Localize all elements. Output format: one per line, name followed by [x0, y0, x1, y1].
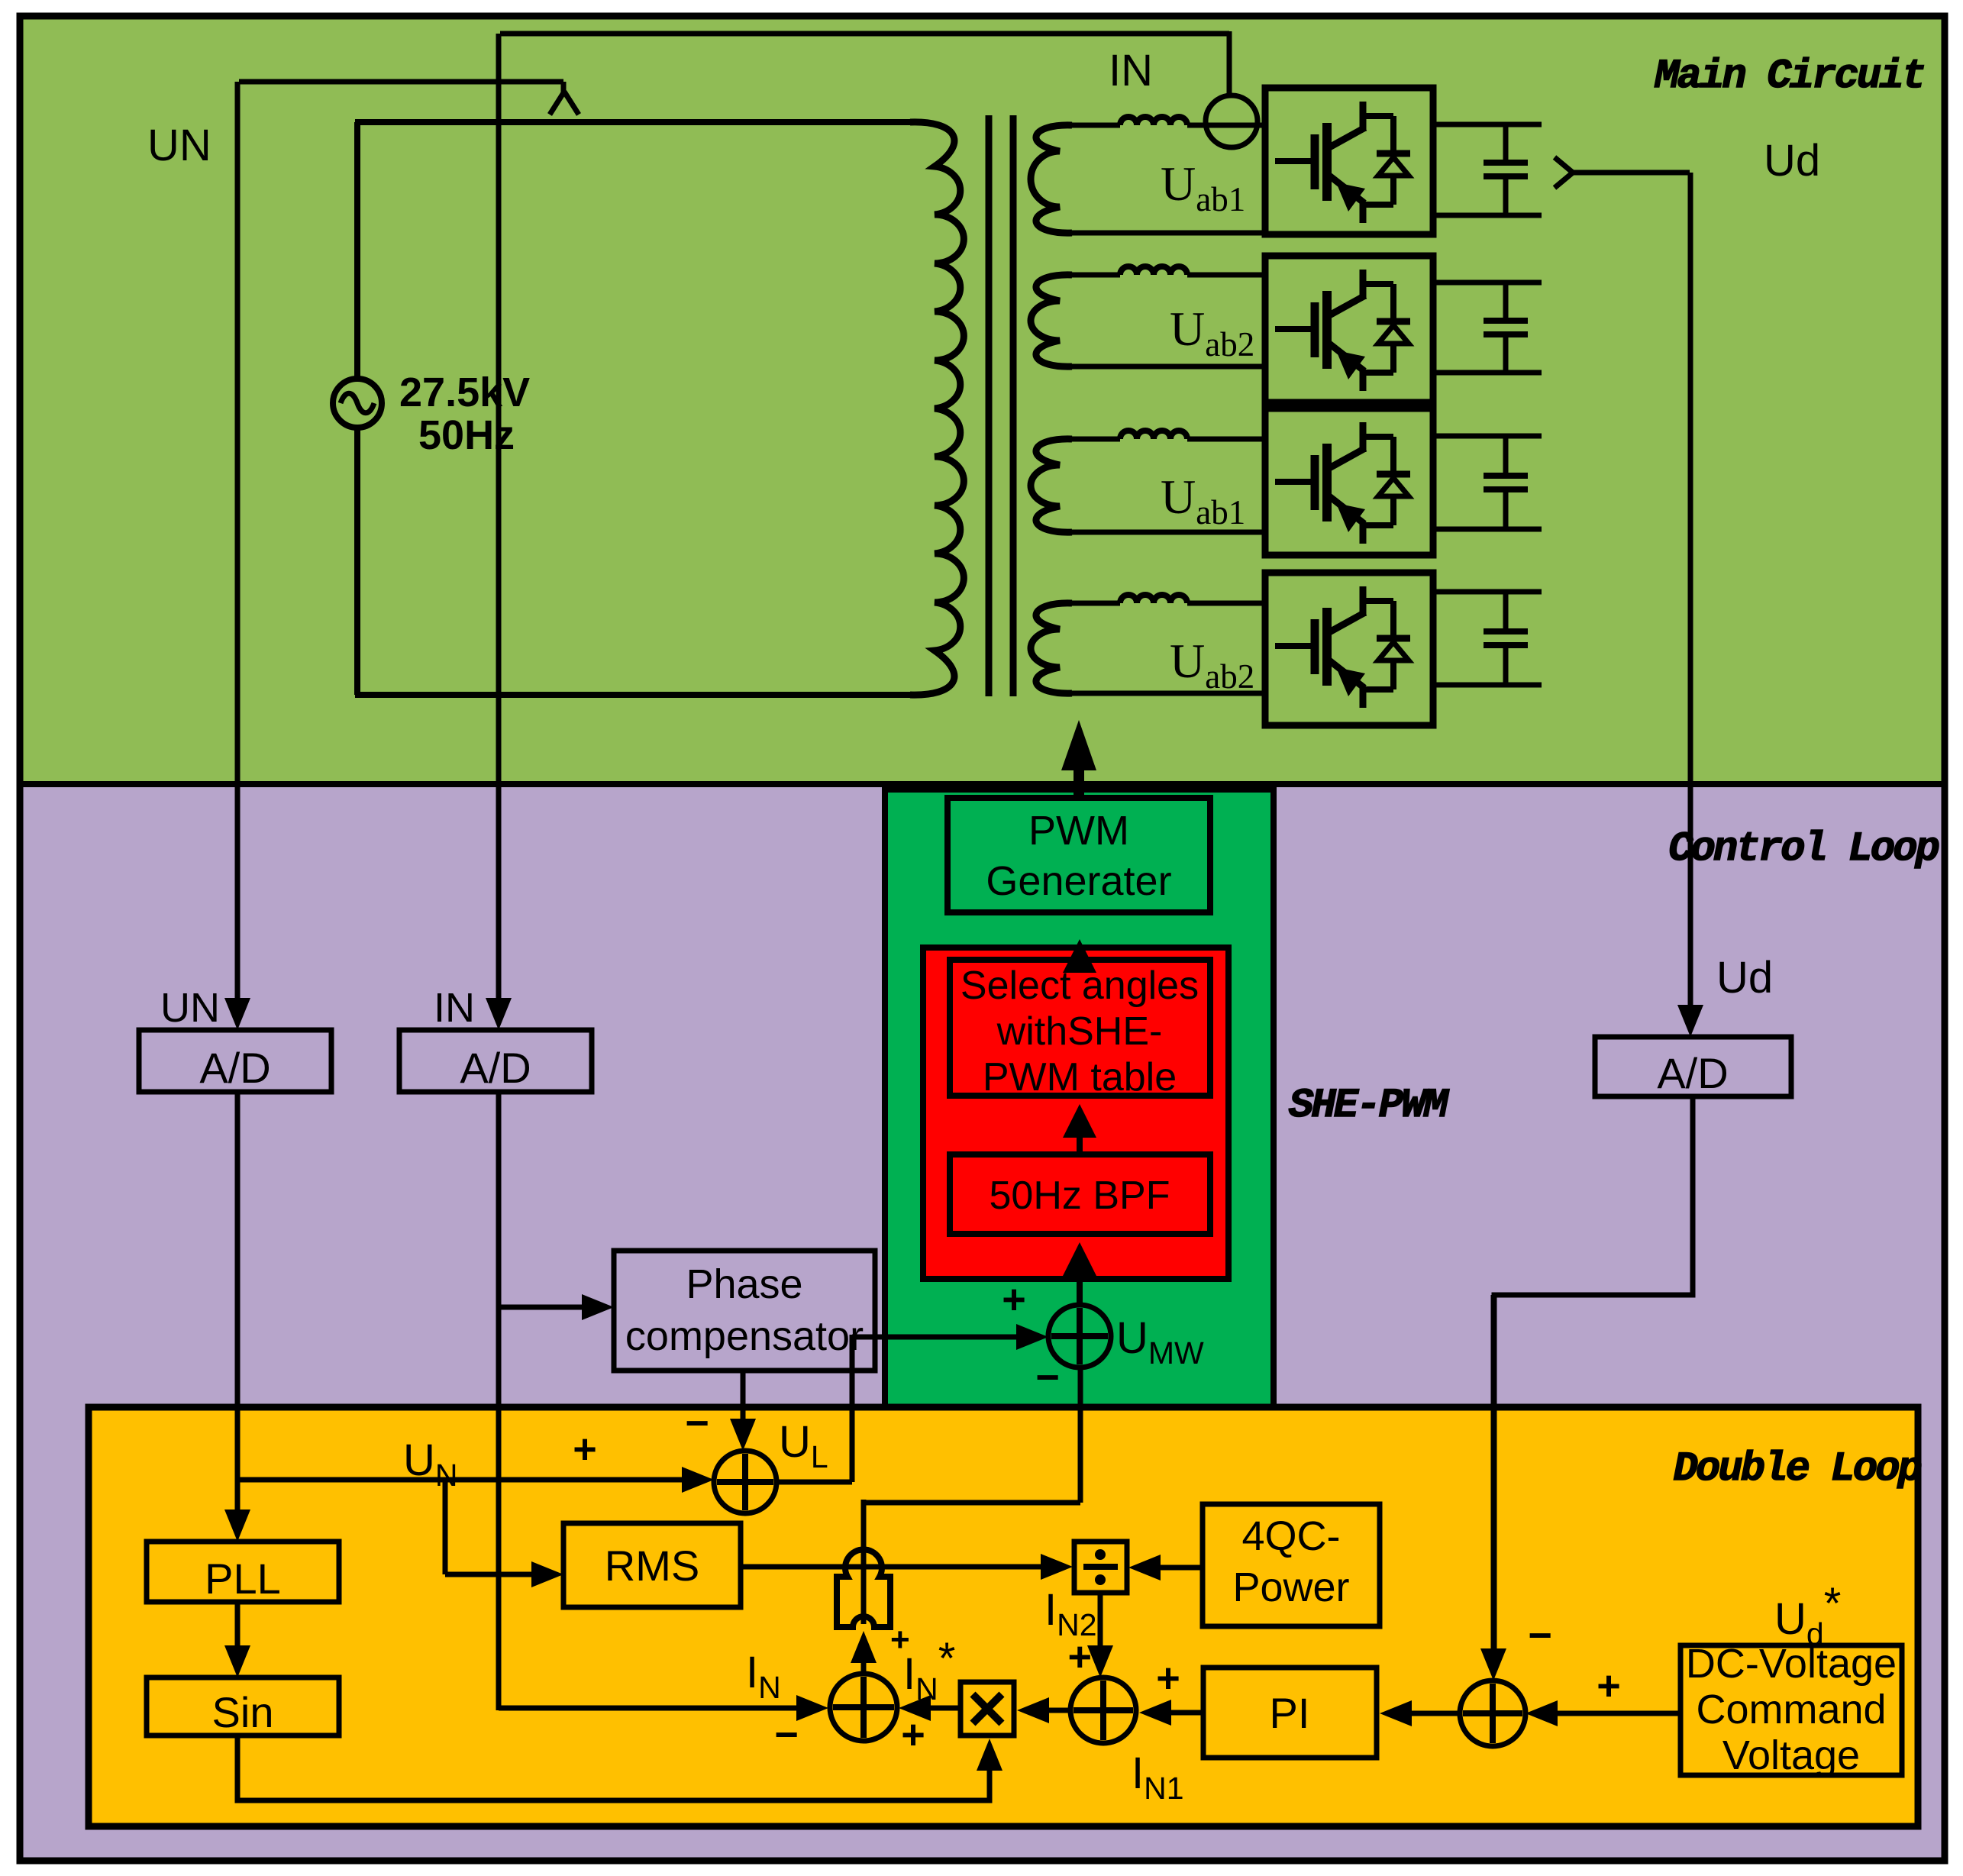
control loop region (purple background): [20, 784, 1945, 1861]
wire secondary 1 top lead with filter inductor L1: [1064, 123, 1120, 128]
wire UN tap drop: [561, 82, 567, 93]
wire secondary 3 bottom lead: [1064, 530, 1267, 535]
wire UN tap horizontal: [239, 79, 563, 85]
svg-text:+: +: [1067, 1634, 1092, 1680]
arrow into RMS: [445, 1572, 531, 1577]
svg-text:SHE-PWM: SHE-PWM: [1289, 1083, 1449, 1129]
arrow IN to IN* junction: [499, 1706, 796, 1711]
wire UN branch down to RMS: [443, 1480, 448, 1574]
arrow Ud feedback into junction: [1491, 1295, 1496, 1648]
wire primary loop top: [355, 119, 916, 125]
converter 4QC module U3 box: [1265, 408, 1433, 555]
svg-text:DC-Voltage: DC-Voltage: [1686, 1641, 1897, 1687]
svg-text:Main Circuit: Main Circuit: [1654, 53, 1924, 100]
arrow PLL to Sin: [235, 1602, 241, 1645]
svg-text:Sin: Sin: [212, 1688, 274, 1736]
block A/D converter (UN): [139, 1030, 331, 1092]
arrow divider IN2 to IN1 junction: [1098, 1593, 1103, 1645]
block 4QC-Power: [1203, 1504, 1380, 1626]
transformer secondary winding 2: [1031, 275, 1072, 366]
svg-text:Control Loop: Control Loop: [1668, 826, 1939, 873]
wire IN* up through limiter: [861, 1500, 867, 1624]
converter 4QC module U1 box: [1265, 88, 1433, 234]
summing junction UL: [714, 1451, 776, 1513]
block PWM Generater: [948, 798, 1210, 912]
svg-text:IN: IN: [1109, 46, 1153, 95]
summing junction IN*: [830, 1674, 897, 1741]
block A/D converter (Ud): [1595, 1037, 1791, 1096]
svg-text:Command: Command: [1696, 1687, 1886, 1732]
wire Ud measurement down to A/D: [1688, 173, 1693, 1005]
arrow 4QC-Power to divider: [1161, 1565, 1203, 1571]
arrow IN branch to Phase compensator: [499, 1305, 582, 1310]
svg-text:−: −: [774, 1712, 799, 1758]
block RMS: [563, 1523, 741, 1607]
SHE-PWM inner green box: [885, 789, 1274, 1411]
summing junction Ud error: [1460, 1681, 1526, 1746]
svg-text:A/D: A/D: [460, 1044, 531, 1092]
svg-text:−: −: [685, 1400, 709, 1446]
svg-text:UN: UN: [160, 985, 220, 1031]
wire Sin output to multiplier: [237, 1736, 990, 1800]
svg-text:−: −: [1035, 1355, 1060, 1400]
arrow compensated signal to UMW junction: [852, 1335, 1016, 1340]
transformer secondary winding 3: [1031, 439, 1072, 532]
svg-text:IN: IN: [434, 985, 475, 1031]
wire source top lead: [354, 122, 360, 379]
svg-text:27.5kV: 27.5kV: [399, 370, 530, 415]
summing junction IN1: [1070, 1677, 1136, 1743]
block PI: [1203, 1668, 1377, 1758]
wire secondary 2 top lead with filter inductor L2: [1064, 273, 1120, 278]
svg-text:+: +: [1597, 1663, 1621, 1709]
arrow Ud junction to PI: [1412, 1711, 1460, 1716]
wire Ud from dc link: [1573, 170, 1690, 176]
wire source bottom lead: [354, 428, 360, 695]
block PLL: [147, 1542, 339, 1602]
wire UL output: [776, 1480, 852, 1485]
pantograph contact symbol: [550, 92, 564, 115]
wire limiter output horizontal: [864, 1500, 1080, 1506]
svg-text:+: +: [901, 1712, 925, 1758]
block Select angles with SHE-PWM table: [950, 960, 1210, 1096]
block A/D converter (IN): [399, 1030, 592, 1092]
Double Loop orange box: [89, 1407, 1918, 1826]
transformer secondary winding 4: [1031, 603, 1072, 693]
dc-link capacitor C2: [1433, 280, 1542, 286]
wire secondary 4 top lead with filter inductor L4: [1064, 601, 1120, 606]
transformer primary winding: [910, 122, 964, 695]
svg-text:PI: PI: [1270, 1689, 1310, 1737]
svg-text:+: +: [1156, 1655, 1180, 1701]
arrow PI to IN1 junction: [1171, 1710, 1203, 1716]
block DC-Voltage Command Voltage: [1680, 1645, 1902, 1775]
arrow multiplier to IN* junction: [931, 1706, 959, 1711]
block Phase compensator: [614, 1251, 875, 1371]
svg-text:Ud: Ud: [1716, 953, 1773, 1003]
arrow A/D UN to PLL: [235, 1092, 241, 1510]
arrow Phase compensator to UL junction: [741, 1371, 746, 1419]
svg-text:Power: Power: [1232, 1564, 1349, 1610]
main circuit region (green background): [20, 16, 1945, 784]
transistor Q2 (IGBT with antiparallel diode): [1275, 270, 1410, 391]
block multiplier: [961, 1682, 1014, 1736]
region boundary line between Main Circuit and Control Loop: [20, 781, 1945, 787]
svg-text:compensator: compensator: [625, 1313, 864, 1359]
block Sin: [147, 1677, 339, 1736]
arrow Ud* command to junction: [1558, 1711, 1680, 1716]
dc-link capacitor C3: [1433, 434, 1542, 439]
summing junction UMW: [1048, 1305, 1111, 1367]
wire secondary 1 bottom lead: [1064, 231, 1267, 236]
svg-text:Generater: Generater: [986, 858, 1171, 904]
arrow IN1 to multiplier: [1049, 1708, 1070, 1713]
current sensor CT on secondary 1 (circle): [1206, 95, 1258, 147]
svg-text:PWM table: PWM table: [983, 1055, 1177, 1099]
arrow RMS output to divider: [741, 1564, 1041, 1570]
converter 4QC module U4 box: [1265, 573, 1433, 725]
svg-text:withSHE-: withSHE-: [996, 1009, 1163, 1054]
svg-text:PWM: PWM: [1028, 808, 1129, 854]
svg-text:A/D: A/D: [199, 1044, 270, 1092]
arrow UN branch to UL junction: [237, 1477, 682, 1483]
svg-text:A/D: A/D: [1657, 1049, 1728, 1097]
svg-text:Voltage: Voltage: [1722, 1732, 1860, 1778]
wire A/D Ud output to junction: [1494, 1096, 1693, 1649]
block 50Hz BPF: [950, 1154, 1210, 1234]
arrow 50Hz BPF to Select angles: [1077, 1138, 1083, 1154]
block SHE-PWM red group box: [923, 948, 1228, 1279]
wire IN signal down to IN junction: [496, 1092, 502, 1710]
svg-text:RMS: RMS: [605, 1542, 699, 1590]
svg-text:−: −: [1528, 1613, 1552, 1658]
wire IN drop to current sensor: [1227, 31, 1232, 96]
dc-link capacitor C4: [1433, 589, 1542, 595]
svg-text:4QC-: 4QC-: [1241, 1513, 1340, 1559]
converter 4QC module U2 box: [1265, 256, 1433, 402]
svg-text:PLL: PLL: [205, 1555, 281, 1603]
svg-text:Double Loop: Double Loop: [1674, 1446, 1922, 1493]
arrow Sin into multiplier: [987, 1770, 993, 1771]
wire IN top horizontal: [500, 31, 1229, 37]
wire secondary 2 bottom lead: [1064, 364, 1267, 370]
wire UL output up: [850, 1335, 855, 1482]
arrow IN* junction to limiter: [861, 1663, 867, 1674]
wire IN measurement down to A/D: [496, 34, 502, 998]
arrow UMW junction to 50Hz BPF: [1077, 1276, 1083, 1305]
arrow PWM Generater output to main circuit: [1074, 768, 1084, 798]
transistor Q4 (IGBT with antiparallel diode): [1275, 586, 1410, 708]
svg-text:+: +: [1002, 1277, 1026, 1322]
svg-text:UN: UN: [147, 121, 211, 170]
wire primary loop bottom: [355, 692, 916, 698]
wire UN measurement down to A/D: [235, 82, 241, 998]
wire limiter output to UMW minus: [1078, 1367, 1083, 1503]
wire secondary 4 bottom lead: [1064, 691, 1267, 696]
transistor Q1 (IGBT with antiparallel diode): [1275, 102, 1410, 223]
transistor Q3 (IGBT with antiparallel diode): [1275, 422, 1410, 544]
transformer secondary winding 1: [1031, 125, 1072, 233]
svg-text:Phase: Phase: [686, 1261, 802, 1307]
transformer core: [986, 115, 993, 696]
svg-text:50Hz BPF: 50Hz BPF: [990, 1174, 1170, 1218]
svg-text:+: +: [573, 1426, 597, 1472]
dc-link capacitor C1: [1433, 122, 1542, 128]
block divider: [1074, 1542, 1127, 1593]
wire secondary 3 top lead with filter inductor L3: [1064, 437, 1120, 442]
svg-text:Ud: Ud: [1764, 136, 1820, 186]
arrow Select angles to PWM Generater: [1077, 960, 1083, 973]
AC source 27.5kV 50Hz: [333, 379, 382, 428]
dc output tap chevron: [1555, 157, 1573, 188]
block limiter (small box with hop notches): [837, 1549, 890, 1627]
